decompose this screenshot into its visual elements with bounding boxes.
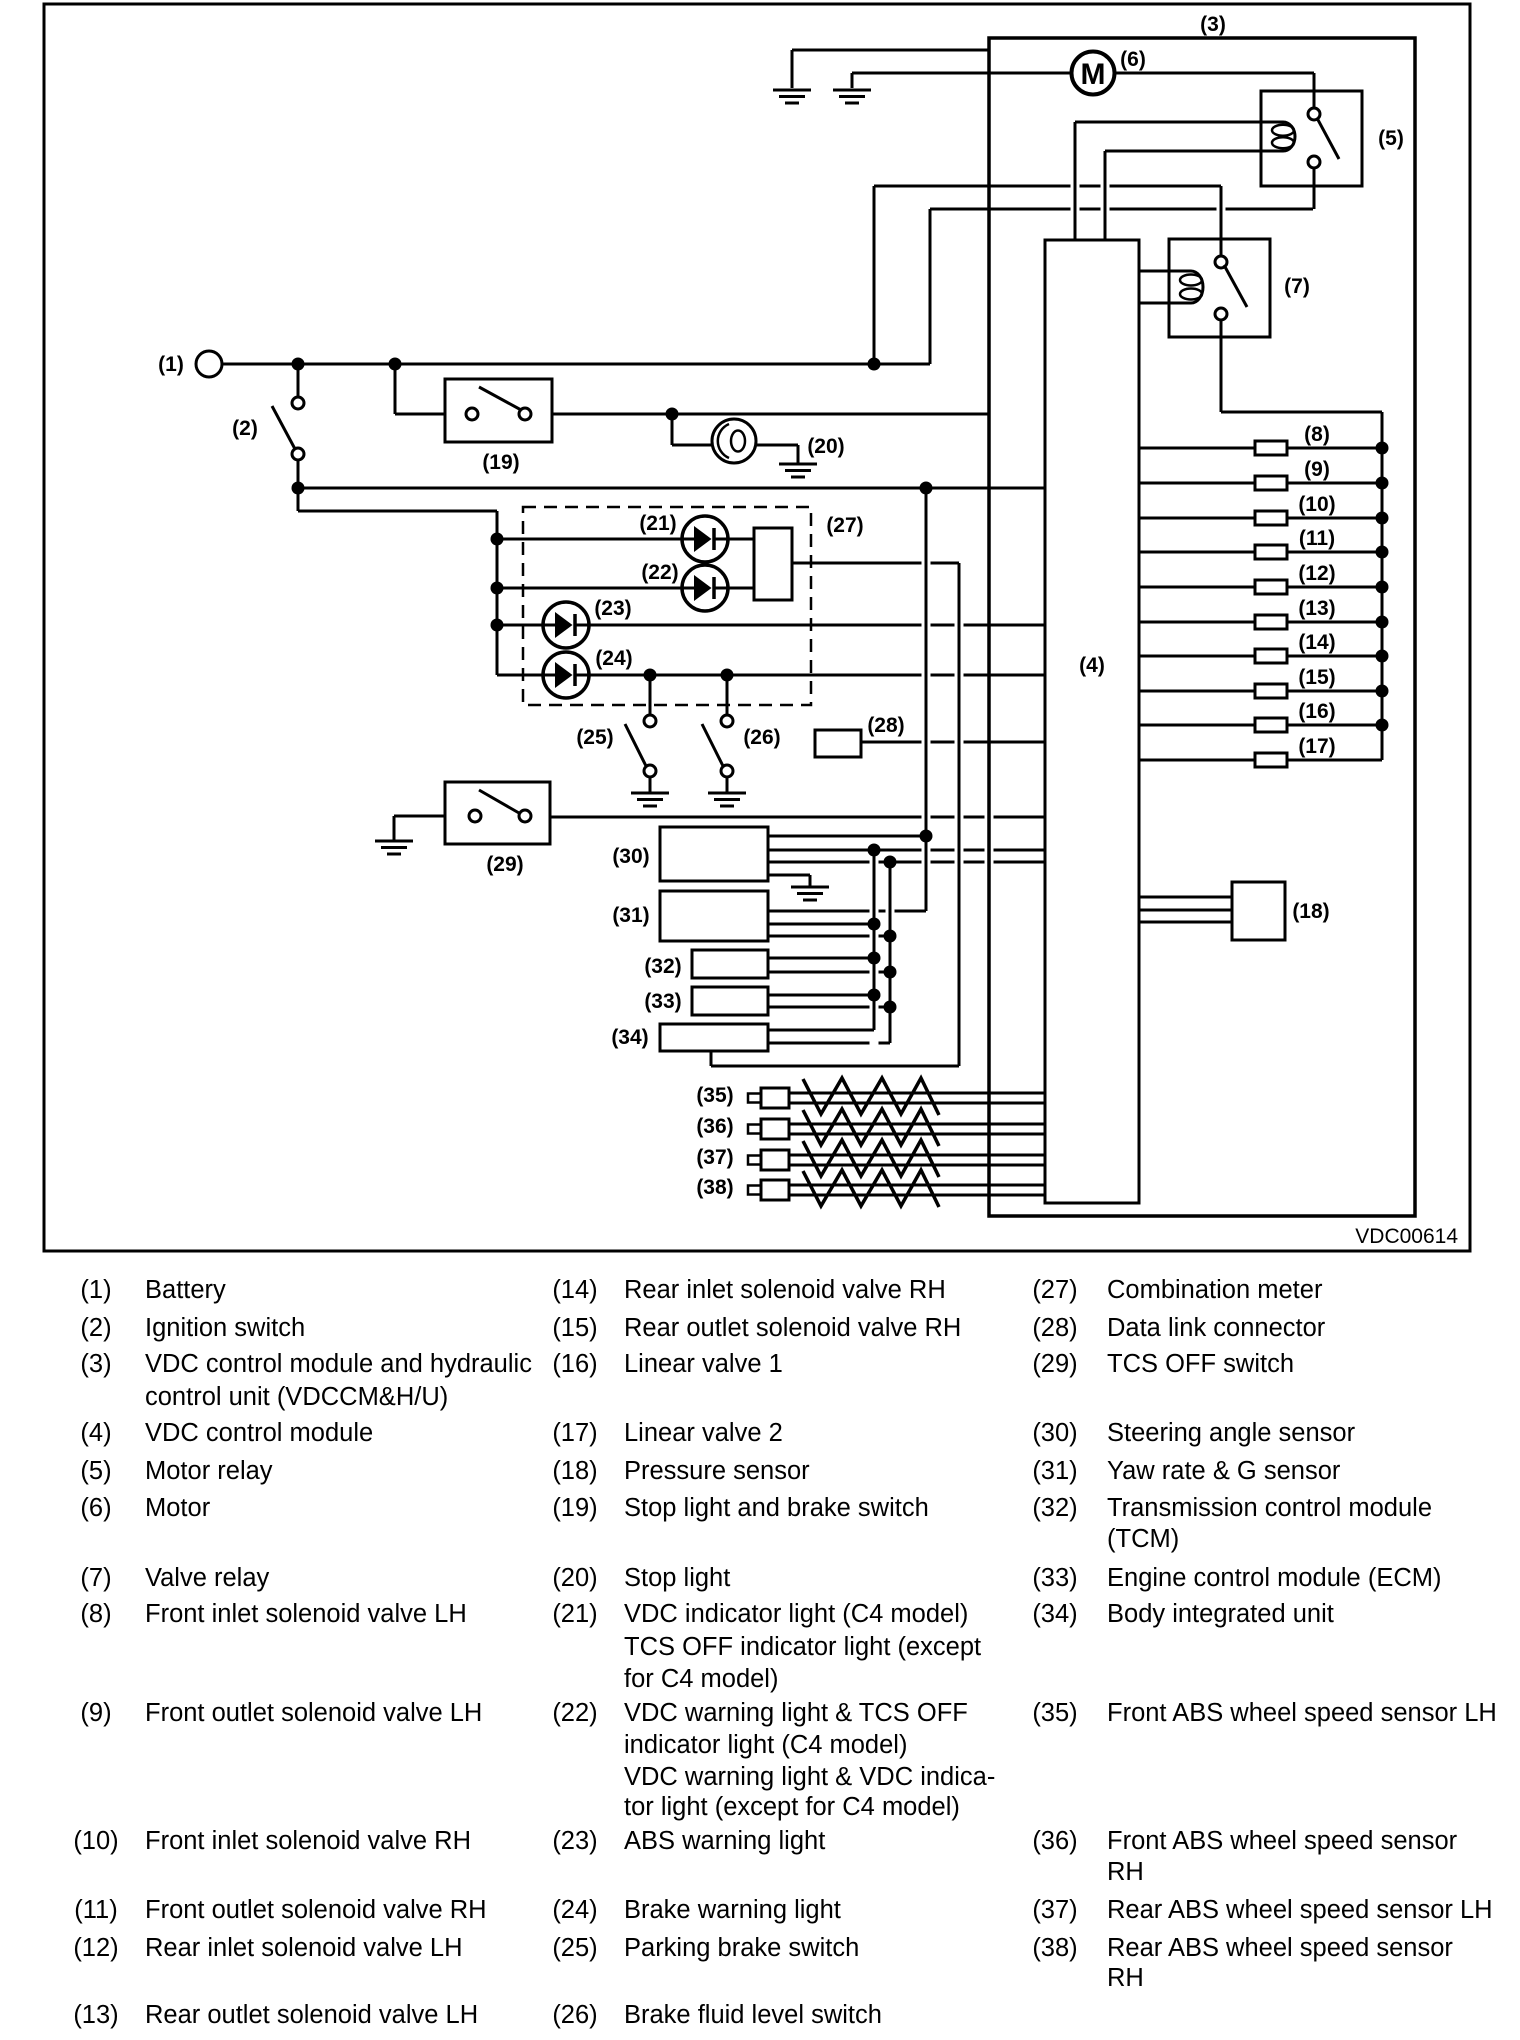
svg-text:Linear valve 1: Linear valve 1 (624, 1350, 783, 1378)
motor (6) circle (1072, 52, 1115, 95)
svg-text:VDC control module: VDC control module (145, 1419, 373, 1447)
wire shared vertical x=874 (873, 850, 876, 1030)
svg-text:Motor relay: Motor relay (145, 1457, 273, 1485)
wire sensor 37 pair (789, 1154, 1045, 1157)
svg-text:(5): (5) (1378, 127, 1404, 150)
junction dot TCM output 2 (884, 966, 897, 979)
svg-text:(33): (33) (644, 990, 681, 1013)
junction dot valve 15 supply (1376, 685, 1389, 698)
svg-text:(1): (1) (158, 353, 184, 376)
svg-text:(30): (30) (612, 845, 649, 868)
relay (7) lower contact (1215, 308, 1227, 320)
junction dot sensor 30 output 2 (868, 844, 881, 857)
wire diode 24 cathode to module (588, 674, 922, 677)
wire sensor 30 ground lead (768, 874, 810, 877)
combination meter internal connector block (754, 528, 792, 600)
junction dot ECM output 1 (868, 989, 881, 1002)
junction dot battery/stoplight-switch branch (389, 358, 402, 371)
svg-text:(27): (27) (826, 514, 863, 537)
svg-text:(7): (7) (80, 1564, 111, 1592)
svg-text:(9): (9) (80, 1699, 111, 1727)
wire battery bus y=364 (222, 363, 930, 366)
VDC indicator light diode (21) (682, 516, 728, 562)
wire sensor 36 pair (789, 1123, 1045, 1126)
yaw rate &amp; G sensor (31) box (660, 891, 768, 941)
svg-text:Front inlet solenoid valve RH: Front inlet solenoid valve RH (145, 1827, 471, 1855)
rear inlet solenoid valve RH (14) coil box (1255, 649, 1287, 663)
switch (19) left contact (466, 408, 478, 420)
svg-text:(3): (3) (80, 1350, 111, 1378)
svg-text:(33): (33) (1032, 1564, 1077, 1592)
svg-text:control unit (VDCCM&H/U): control unit (VDCCM&H/U) (145, 1383, 448, 1411)
wire branch to stop light switch (394, 364, 397, 414)
junction dot diode 22 feed (491, 582, 504, 595)
wire valve 10 to supply bus (1287, 517, 1382, 520)
front inlet solenoid valve LH (8) coil box (1255, 441, 1287, 455)
svg-text:(35): (35) (1032, 1699, 1077, 1727)
svg-text:(31): (31) (612, 904, 649, 927)
wire valve supply bus x=1382 (1381, 412, 1384, 760)
linear valve 1 (16) coil box (1255, 718, 1287, 732)
wire valve 15 to supply bus (1287, 690, 1382, 693)
junction dot sensor 31 output 2 (868, 918, 881, 931)
svg-text:RH: RH (1107, 1964, 1144, 1992)
wire ignition branch to lamp cluster (297, 488, 300, 511)
svg-text:(12): (12) (73, 1934, 118, 1962)
switch (25) upper contact (644, 715, 656, 727)
svg-text:(29): (29) (486, 853, 523, 876)
motor relay (5) box (1261, 91, 1362, 186)
wire diode 21 cathode to meter connector (727, 538, 754, 541)
svg-text:(5): (5) (80, 1457, 111, 1485)
svg-text:Brake warning light: Brake warning light (624, 1896, 841, 1924)
wire BIU output 1 (768, 1029, 874, 1032)
wire ignition bus y=488 (298, 487, 1045, 490)
svg-text:(1): (1) (80, 1276, 111, 1304)
svg-text:Linear valve 2: Linear valve 2 (624, 1419, 783, 1447)
wire diode 24 anode (497, 674, 544, 677)
svg-text:Rear outlet solenoid valve RH: Rear outlet solenoid valve RH (624, 1314, 961, 1342)
svg-text:(19): (19) (482, 451, 519, 474)
junction dot valve 8 supply (1376, 442, 1389, 455)
ABS warning light diode (23) (543, 602, 589, 648)
junction dot ignition bus x=926 (920, 482, 933, 495)
ground at TCS OFF switch (29) (375, 840, 413, 843)
wire meter output y=563 (792, 562, 922, 565)
stop light (20) lamp circle (712, 419, 756, 463)
relay (5) upper contact (1308, 108, 1320, 120)
stop light (20) right lead (756, 444, 798, 447)
svg-text:(13): (13) (73, 2001, 118, 2029)
svg-text:Valve relay: Valve relay (145, 1564, 270, 1592)
rear ABS wheel speed sensor RH (38) connector (748, 1186, 761, 1195)
svg-text:Rear inlet solenoid valve RH: Rear inlet solenoid valve RH (624, 1276, 946, 1304)
ground (module ground 1) (791, 50, 794, 88)
svg-text:(28): (28) (1032, 1314, 1077, 1342)
svg-text:(7): (7) (1284, 275, 1310, 298)
wire module to valve 16 (1139, 724, 1255, 727)
svg-text:Steering angle sensor: Steering angle sensor (1107, 1419, 1356, 1447)
wire sensor 30 output 2 (768, 849, 922, 852)
svg-text:(32): (32) (644, 955, 681, 978)
relay (5) coil (1272, 125, 1294, 136)
svg-text:Rear ABS wheel speed sensor: Rear ABS wheel speed sensor (1107, 1934, 1453, 1962)
relay (7) coil (1180, 275, 1202, 286)
svg-text:(4): (4) (1079, 654, 1105, 677)
svg-text:(16): (16) (552, 1350, 597, 1378)
svg-text:(24): (24) (595, 647, 632, 670)
svg-text:(20): (20) (552, 1564, 597, 1592)
svg-text:Front outlet solenoid valve LH: Front outlet solenoid valve LH (145, 1699, 482, 1727)
wire relay 7 output (1220, 320, 1223, 412)
switch (29) right contact (519, 810, 531, 822)
switch (26) lower contact (721, 765, 733, 777)
wire module to valve 11 (1139, 551, 1255, 554)
front outlet solenoid valve RH (11) coil box (1255, 545, 1287, 559)
svg-text:(19): (19) (552, 1494, 597, 1522)
svg-text:ABS warning light: ABS warning light (624, 1827, 825, 1855)
wire relay 7 coil leads (1139, 270, 1191, 273)
svg-text:Motor: Motor (145, 1494, 211, 1522)
svg-text:(25): (25) (576, 726, 613, 749)
junction dot parking brake branch (644, 669, 657, 682)
wire valve 12 to supply bus (1287, 586, 1382, 589)
wire module to valve 8 (1139, 447, 1255, 450)
svg-text:Body integrated unit: Body integrated unit (1107, 1600, 1334, 1628)
wire ECM output 2 (768, 1006, 870, 1009)
svg-text:Stop light: Stop light (624, 1564, 730, 1592)
svg-text:(26): (26) (743, 726, 780, 749)
ignition switch (2) upper lead (297, 364, 300, 398)
border frame of figure (44, 4, 1470, 1251)
rear ABS wheel speed sensor LH (37) connector (748, 1156, 761, 1165)
svg-text:(13): (13) (1298, 597, 1335, 620)
svg-text:(36): (36) (1032, 1827, 1077, 1855)
wire battery feed riser x=874 (873, 186, 876, 364)
svg-text:(29): (29) (1032, 1350, 1077, 1378)
junction dot brake fluid branch (721, 669, 734, 682)
wire BIU bottom lead to meter line (710, 1051, 713, 1066)
relay (7) upper contact (1215, 256, 1227, 268)
wire TCM output 2 (768, 971, 870, 974)
svg-text:(6): (6) (1120, 48, 1146, 71)
twisted pair symbol for sensor 37 (803, 1140, 939, 1177)
svg-text:for C4 model): for C4 model) (624, 1665, 778, 1693)
svg-text:(23): (23) (594, 597, 631, 620)
svg-text:M: M (1081, 58, 1106, 91)
junction dot valve 13 supply (1376, 616, 1389, 629)
svg-text:(10): (10) (1298, 493, 1335, 516)
svg-text:Stop light and brake switch: Stop light and brake switch (624, 1494, 929, 1522)
junction dot valve 11 supply (1376, 546, 1389, 559)
svg-text:Data link connector: Data link connector (1107, 1314, 1326, 1342)
ignition switch (2) upper contact (292, 397, 304, 409)
switch (19) blade (479, 387, 523, 411)
svg-text:(18): (18) (552, 1457, 597, 1485)
junction dot battery/relay feed (868, 358, 881, 371)
svg-text:(31): (31) (1032, 1457, 1077, 1485)
parking brake switch (25) lead (649, 675, 652, 715)
wire module to valve 9 (1139, 482, 1255, 485)
ground at switch (25) (631, 792, 669, 795)
svg-text:(4): (4) (80, 1419, 111, 1447)
wire module to valve 14 (1139, 655, 1255, 658)
wire sensor 30 output 3 (768, 861, 870, 864)
svg-text:(37): (37) (1032, 1896, 1077, 1924)
wire diode 22 anode (497, 587, 683, 590)
svg-text:(2): (2) (80, 1314, 111, 1342)
wire sensor 30 output 1 (768, 835, 926, 838)
wire relay 5 lower contact to battery feed (1313, 168, 1316, 209)
data link connector (28) box (815, 730, 861, 757)
svg-text:(24): (24) (552, 1896, 597, 1924)
svg-text:(27): (27) (1032, 1276, 1077, 1304)
svg-text:(30): (30) (1032, 1419, 1077, 1447)
engine control module (33) box (692, 987, 768, 1015)
wire relay 7 top contact lead (1220, 186, 1223, 256)
wire TCS OFF switch to module y=817 (550, 816, 922, 819)
junction dot stop light branch (666, 408, 679, 421)
wire vertical feed x=497 for indicator diodes (496, 511, 499, 675)
svg-text:(22): (22) (641, 561, 678, 584)
transmission control module (32) box (692, 950, 768, 978)
body integrated unit (34) box (660, 1024, 768, 1051)
wire battery feed to relay 7 y=186 (874, 185, 1071, 188)
wire valve 9 to supply bus (1287, 482, 1382, 485)
svg-text:(12): (12) (1298, 562, 1335, 585)
svg-text:(34): (34) (611, 1026, 648, 1049)
front ABS wheel speed sensor RH (36) connector (748, 1125, 761, 1134)
svg-text:(8): (8) (1304, 423, 1330, 446)
wire motor right lead (1115, 72, 1314, 75)
svg-text:Front ABS wheel speed sensor: Front ABS wheel speed sensor (1107, 1827, 1458, 1855)
valve relay (7) box (1169, 239, 1270, 337)
switch (26) upper contact (721, 715, 733, 727)
stop light (20) lamp lead (671, 414, 674, 445)
wire ECM output 1 (768, 994, 874, 997)
wire valve 11 to supply bus (1287, 551, 1382, 554)
switch (25) ground lead (649, 777, 652, 792)
relay (5) blade (1317, 118, 1339, 159)
junction dot diode 23 feed (491, 619, 504, 632)
junction dot valve 12 supply (1376, 581, 1389, 594)
wire diode 23 anode (497, 624, 544, 627)
svg-text:Pressure sensor: Pressure sensor (624, 1457, 810, 1485)
wire valve 13 to supply bus (1287, 621, 1382, 624)
ground at stop light (20) (779, 463, 817, 466)
svg-text:(15): (15) (552, 1314, 597, 1342)
svg-text:Rear inlet solenoid valve LH: Rear inlet solenoid valve LH (145, 1934, 463, 1962)
junction dot ECM output 2 (884, 1001, 897, 1014)
ground at sensor (30) (791, 886, 829, 889)
svg-text:(21): (21) (639, 512, 676, 535)
svg-text:Engine control module (ECM): Engine control module (ECM) (1107, 1564, 1441, 1592)
junction dot diode 21 feed (491, 533, 504, 546)
svg-text:Parking brake switch: Parking brake switch (624, 1934, 859, 1962)
VDC control module and hydraulic control unit box (3) VDCCM&H/U (989, 38, 1415, 1216)
wire motor left lead (852, 72, 1071, 75)
svg-text:(3): (3) (1200, 13, 1226, 36)
svg-text:(32): (32) (1032, 1494, 1077, 1522)
svg-text:(26): (26) (552, 2001, 597, 2029)
rear inlet solenoid valve LH (12) coil box (1255, 580, 1287, 594)
svg-text:Yaw rate & G sensor: Yaw rate & G sensor (1107, 1457, 1341, 1485)
switch (25) lower contact (644, 765, 656, 777)
VDC warning light diode (22) (682, 565, 728, 611)
svg-text:(10): (10) (73, 1827, 118, 1855)
twisted pair symbol for sensor 38 (803, 1170, 939, 1207)
svg-text:(36): (36) (696, 1115, 733, 1138)
wire data link to module y=742 (861, 741, 922, 744)
switch (26) blade (702, 724, 725, 770)
svg-text:(34): (34) (1032, 1600, 1077, 1628)
svg-text:(9): (9) (1304, 458, 1330, 481)
wire shared vertical x=890 (889, 862, 892, 1043)
ground at switch (26) (708, 792, 746, 795)
pressure sensor (18) box (1232, 882, 1285, 940)
wire valve 8 to supply bus (1287, 447, 1382, 450)
wire battery feed to relay 5 y=209 (930, 208, 1071, 211)
svg-text:indicator light (C4 model): indicator light (C4 model) (624, 1731, 907, 1759)
junction dot valve 14 supply (1376, 650, 1389, 663)
wire sensor 35 pair (789, 1092, 1045, 1095)
svg-text:(20): (20) (807, 435, 844, 458)
svg-text:Transmission control module: Transmission control module (1107, 1494, 1432, 1522)
svg-text:Front ABS wheel speed sensor L: Front ABS wheel speed sensor LH (1107, 1699, 1497, 1727)
wire module to valve 13 (1139, 621, 1255, 624)
svg-text:(21): (21) (552, 1600, 597, 1628)
svg-text:(6): (6) (80, 1494, 111, 1522)
wire diode 23 cathode to module (588, 624, 922, 627)
svg-text:(37): (37) (696, 1146, 733, 1169)
wire pressure sensor leads (1139, 896, 1232, 899)
junction dot TCM output 1 (868, 952, 881, 965)
svg-text:(TCM): (TCM) (1107, 1525, 1179, 1553)
svg-text:Front outlet solenoid valve RH: Front outlet solenoid valve RH (145, 1896, 487, 1924)
svg-text:(15): (15) (1298, 666, 1335, 689)
svg-text:RH: RH (1107, 1858, 1144, 1886)
svg-text:(22): (22) (552, 1699, 597, 1727)
junction dot valve 16 supply (1376, 719, 1389, 732)
svg-text:VDC warning light & TCS OFF: VDC warning light & TCS OFF (624, 1699, 968, 1727)
svg-text:(28): (28) (867, 714, 904, 737)
switch (29) blade (479, 790, 519, 813)
rear outlet solenoid valve RH (15) coil box (1255, 684, 1287, 698)
svg-text:(11): (11) (74, 1896, 117, 1924)
wire BIU output 2 (768, 1042, 870, 1045)
svg-text:(14): (14) (1298, 631, 1335, 654)
svg-text:Battery: Battery (145, 1276, 226, 1304)
wire diode 21 anode (497, 538, 683, 541)
junction dot sensor 30 output 3 (884, 856, 897, 869)
brake fluid level switch (26) lead (726, 675, 729, 715)
svg-text:(17): (17) (1298, 735, 1335, 758)
wire relay 5 coil control side (1105, 150, 1283, 153)
stop light (20) filament (718, 424, 729, 458)
wire module to valve 15 (1139, 690, 1255, 693)
junction dot sensor 31 output 3 (884, 930, 897, 943)
switch (19) right contact (519, 408, 531, 420)
switch (26) ground lead (726, 777, 729, 792)
wire valve 17 to supply bus (1287, 759, 1382, 762)
svg-text:(2): (2) (232, 417, 258, 440)
svg-text:(14): (14) (552, 1276, 597, 1304)
ground (motor ground) (851, 73, 854, 88)
combination meter (27) dashed boundary (523, 507, 811, 705)
battery (1) terminal circle (196, 351, 222, 377)
VDC control module box (4) (1045, 240, 1139, 1203)
brake warning light diode (24) (543, 652, 589, 698)
wire sensor 38 pair (789, 1184, 1045, 1187)
svg-text:VDC indicator light (C4 model): VDC indicator light (C4 model) (624, 1600, 968, 1628)
svg-text:(23): (23) (552, 1827, 597, 1855)
junction dot valve 9 supply (1376, 477, 1389, 490)
wire valve 14 to supply bus (1287, 655, 1382, 658)
svg-text:VDC control module and hydraul: VDC control module and hydraulic (145, 1350, 532, 1378)
wire stop light feed y=414 (552, 413, 988, 416)
stop light and brake switch (19) box (445, 379, 552, 442)
twisted pair symbol for sensor 36 (803, 1109, 939, 1146)
switch (25) blade (625, 724, 648, 770)
front inlet solenoid valve RH (10) coil box (1255, 511, 1287, 525)
svg-text:tor light (except for C4 model: tor light (except for C4 model) (624, 1793, 960, 1821)
ignition switch (2) blade (272, 406, 295, 449)
wire TCM output 1 (768, 957, 874, 960)
svg-text:(11): (11) (1299, 527, 1335, 550)
wire battery feed riser x=930 (929, 209, 932, 364)
wire module to valve 10 (1139, 517, 1255, 520)
ignition switch (2) lower contact (292, 448, 304, 460)
svg-text:(17): (17) (552, 1419, 597, 1447)
wire sensor 31 output 2 (768, 923, 874, 926)
svg-text:(25): (25) (552, 1934, 597, 1962)
svg-text:(35): (35) (696, 1084, 733, 1107)
wire valve 16 to supply bus (1287, 724, 1382, 727)
wire module to valve 17 (1139, 759, 1255, 762)
wire diode 22 cathode to meter connector (727, 587, 754, 590)
switch (29) left contact (469, 810, 481, 822)
linear valve 2 (17) coil box (1255, 753, 1287, 767)
front ABS wheel speed sensor LH (35) connector (748, 1094, 761, 1103)
wire module to valve 12 (1139, 586, 1255, 589)
wire ground 1 to unit (792, 49, 989, 52)
svg-text:(38): (38) (696, 1176, 733, 1199)
wire shared vertical x=926 (ignition feed) (925, 488, 928, 911)
front outlet solenoid valve LH (9) coil box (1255, 476, 1287, 490)
svg-text:(18): (18) (1292, 900, 1329, 923)
steering angle sensor (30) box (660, 827, 768, 881)
svg-text:TCS OFF switch: TCS OFF switch (1107, 1350, 1294, 1378)
rear outlet solenoid valve LH (13) coil box (1255, 615, 1287, 629)
TCS OFF switch (29) ground lead (393, 816, 396, 840)
junction dot battery/ignition (292, 358, 305, 371)
relay (5) lower contact (1308, 156, 1320, 168)
TCS OFF switch (29) box (445, 782, 550, 844)
svg-text:(38): (38) (1032, 1934, 1077, 1962)
wire relay 5 coil hot side (1075, 121, 1283, 124)
wire meter output vertical x=959 (958, 563, 961, 1066)
svg-text:Rear outlet solenoid valve LH: Rear outlet solenoid valve LH (145, 2001, 478, 2029)
svg-text:VDC warning light & VDC indica: VDC warning light & VDC indica- (624, 1763, 995, 1791)
junction dot ignition bus (292, 482, 305, 495)
svg-text:(16): (16) (1298, 700, 1335, 723)
twisted pair symbol for sensor 35 (803, 1078, 939, 1115)
junction dot valve 10 supply (1376, 512, 1389, 525)
wire sensor 31 output 3 (768, 935, 870, 938)
svg-text:Front inlet solenoid valve LH: Front inlet solenoid valve LH (145, 1600, 467, 1628)
svg-text:VDC00614: VDC00614 (1355, 1225, 1458, 1248)
ignition switch (2) lower lead (297, 460, 300, 511)
